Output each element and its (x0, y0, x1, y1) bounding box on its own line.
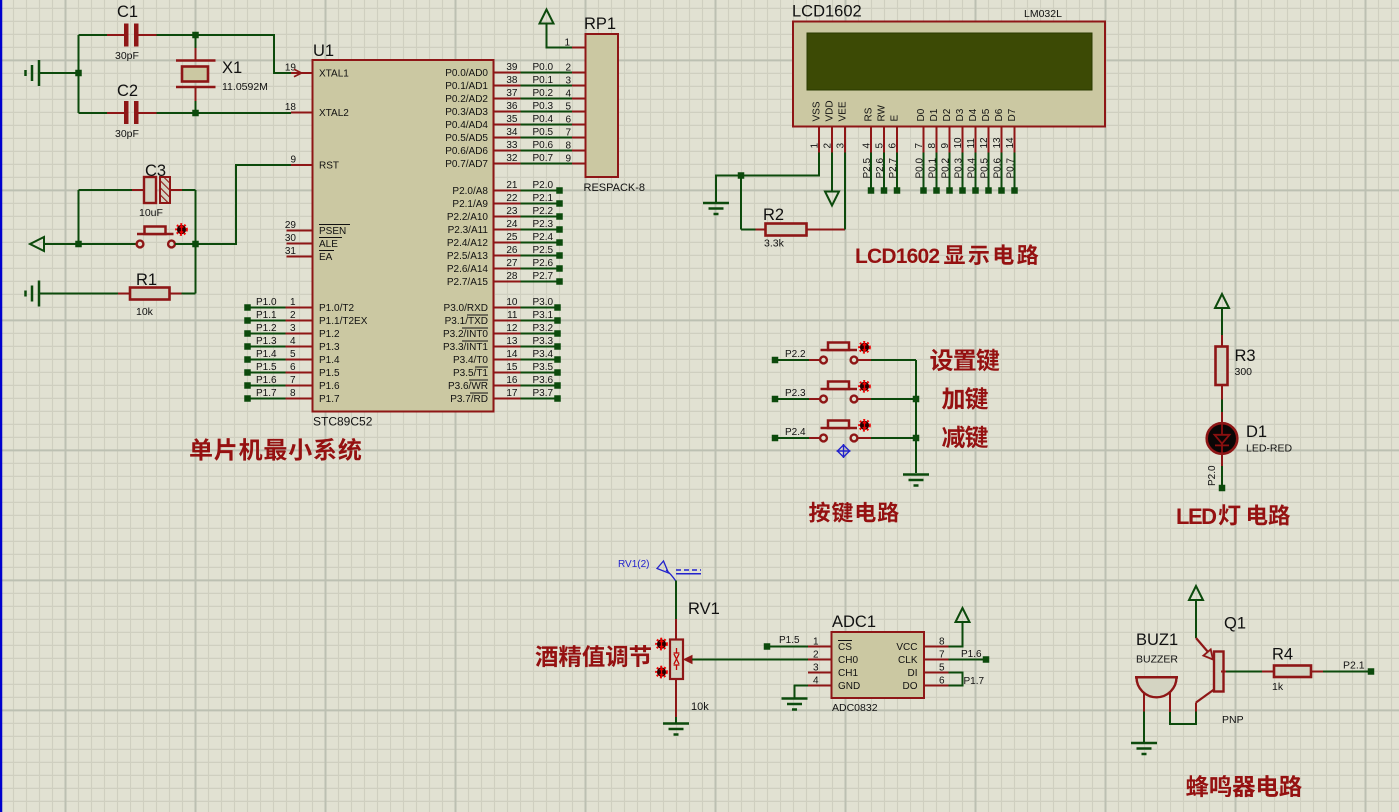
svg-text:12: 12 (979, 137, 990, 149)
svg-text:18: 18 (285, 102, 297, 113)
svg-text:P0.3: P0.3 (533, 101, 554, 112)
svg-text:PSEN: PSEN (319, 226, 346, 237)
svg-text:9: 9 (940, 143, 951, 149)
svg-text:C1: C1 (117, 3, 138, 21)
svg-text:P3.0: P3.0 (533, 297, 554, 308)
svg-text:13: 13 (506, 336, 518, 347)
svg-text:P0.5/AD5: P0.5/AD5 (445, 133, 488, 144)
svg-text:R1: R1 (136, 271, 157, 289)
svg-text:P2.5: P2.5 (533, 245, 554, 256)
svg-text:15: 15 (506, 362, 518, 373)
svg-text:P3.1/TXD: P3.1/TXD (445, 316, 488, 327)
svg-text:3.3k: 3.3k (764, 238, 785, 250)
svg-text:RST: RST (319, 161, 339, 172)
svg-text:29: 29 (285, 220, 297, 231)
svg-text:7: 7 (565, 128, 571, 139)
svg-text:32: 32 (506, 153, 518, 164)
svg-text:P1.5: P1.5 (779, 635, 800, 646)
svg-text:R3: R3 (1235, 347, 1256, 365)
svg-text:P3.4/T0: P3.4/T0 (453, 355, 488, 366)
svg-text:P1.3: P1.3 (256, 336, 277, 347)
svg-text:6: 6 (290, 362, 296, 373)
svg-text:P0.7/AD7: P0.7/AD7 (445, 159, 488, 170)
svg-text:GND: GND (838, 681, 860, 692)
svg-text:P0.7: P0.7 (1006, 157, 1017, 178)
svg-text:D7: D7 (1007, 108, 1018, 121)
svg-text:P3.7: P3.7 (533, 388, 554, 399)
svg-text:P2.0/A8: P2.0/A8 (452, 186, 488, 197)
svg-text:DO: DO (903, 681, 918, 692)
svg-text:35: 35 (506, 114, 518, 125)
svg-text:7: 7 (290, 375, 296, 386)
svg-text:2: 2 (290, 310, 296, 321)
svg-text:33: 33 (506, 140, 518, 151)
svg-text:LM032L: LM032L (1024, 8, 1062, 20)
svg-text:4: 4 (813, 676, 819, 687)
svg-text:D5: D5 (981, 108, 992, 121)
svg-text:P1.5: P1.5 (319, 368, 340, 379)
svg-text:9: 9 (290, 155, 296, 166)
svg-text:P2.1/A9: P2.1/A9 (452, 199, 488, 210)
svg-text:38: 38 (506, 75, 518, 86)
svg-text:P2.2: P2.2 (533, 206, 554, 217)
svg-text:EA: EA (319, 252, 333, 263)
svg-text:37: 37 (506, 88, 518, 99)
svg-text:6: 6 (939, 676, 945, 687)
svg-text:2: 2 (823, 143, 834, 149)
svg-text:2: 2 (813, 650, 819, 661)
svg-text:P0.0: P0.0 (533, 62, 554, 73)
svg-text:14: 14 (506, 349, 518, 360)
svg-text:8: 8 (939, 637, 945, 648)
svg-text:P2.0: P2.0 (533, 180, 554, 191)
svg-text:LCD1602: LCD1602 (792, 3, 862, 21)
svg-text:P0.6: P0.6 (993, 157, 1004, 178)
svg-text:U1: U1 (313, 42, 334, 60)
svg-text:D2: D2 (942, 108, 953, 121)
svg-text:P2.7: P2.7 (533, 271, 554, 282)
svg-text:4: 4 (565, 89, 571, 100)
svg-text:P3.6/WR: P3.6/WR (448, 381, 488, 392)
svg-text:23: 23 (506, 206, 518, 217)
svg-text:22: 22 (506, 193, 518, 204)
svg-text:P1.2: P1.2 (319, 329, 340, 340)
svg-text:E: E (890, 115, 901, 122)
svg-text:P1.1: P1.1 (256, 310, 277, 321)
svg-text:ADC1: ADC1 (832, 613, 876, 631)
svg-text:P0.1: P0.1 (533, 75, 554, 86)
svg-text:5: 5 (290, 349, 296, 360)
svg-text:P0.3: P0.3 (954, 157, 965, 178)
svg-text:RV1(2): RV1(2) (618, 559, 650, 570)
svg-text:PNP: PNP (1222, 714, 1244, 726)
svg-text:X1: X1 (222, 59, 242, 77)
svg-text:13: 13 (992, 137, 1003, 149)
svg-text:P0.4: P0.4 (533, 114, 554, 125)
svg-text:P3.0/RXD: P3.0/RXD (444, 303, 488, 314)
svg-text:6: 6 (888, 143, 899, 149)
svg-text:R2: R2 (763, 206, 784, 224)
svg-text:P2.2/A10: P2.2/A10 (447, 212, 489, 223)
svg-text:28: 28 (506, 271, 518, 282)
svg-text:VDD: VDD (825, 100, 836, 121)
svg-text:10: 10 (506, 297, 518, 308)
svg-text:7: 7 (939, 650, 945, 661)
svg-text:P1.0: P1.0 (256, 297, 277, 308)
svg-text:ADC0832: ADC0832 (832, 702, 878, 714)
svg-text:RS: RS (864, 107, 875, 121)
svg-text:XTAL1: XTAL1 (319, 69, 349, 80)
svg-text:5: 5 (939, 663, 945, 674)
svg-text:VCC: VCC (896, 642, 917, 653)
svg-text:21: 21 (506, 180, 518, 191)
svg-text:P2.3/A11: P2.3/A11 (448, 225, 489, 236)
svg-text:39: 39 (506, 62, 518, 73)
svg-text:P2.2: P2.2 (785, 349, 806, 360)
svg-text:P1.7: P1.7 (319, 394, 340, 405)
svg-text:11: 11 (507, 310, 518, 321)
svg-text:P1.4: P1.4 (319, 355, 340, 366)
svg-text:RESPACK-8: RESPACK-8 (584, 182, 646, 194)
svg-text:XTAL2: XTAL2 (319, 108, 349, 119)
svg-text:8: 8 (565, 141, 571, 152)
svg-text:2: 2 (565, 63, 571, 74)
svg-text:CLK: CLK (898, 655, 918, 666)
svg-text:3: 3 (290, 323, 296, 334)
svg-text:ALE: ALE (319, 239, 338, 250)
svg-text:P0.2: P0.2 (941, 157, 952, 178)
svg-text:4: 4 (290, 336, 296, 347)
svg-text:11: 11 (966, 138, 977, 149)
svg-text:10k: 10k (136, 306, 154, 318)
svg-text:P0.0/AD0: P0.0/AD0 (445, 68, 488, 79)
svg-text:30pF: 30pF (115, 128, 139, 140)
svg-text:D1: D1 (929, 108, 940, 121)
svg-text:300: 300 (1235, 366, 1253, 378)
svg-text:P2.0: P2.0 (1207, 465, 1218, 486)
svg-text:P2.4/A12: P2.4/A12 (447, 238, 489, 249)
svg-text:STC89C52: STC89C52 (313, 415, 373, 429)
svg-text:CS: CS (838, 642, 852, 653)
svg-text:P2.6/A14: P2.6/A14 (447, 264, 489, 275)
svg-text:25: 25 (506, 232, 518, 243)
svg-text:P2.7: P2.7 (888, 157, 899, 178)
svg-text:P0.0: P0.0 (915, 157, 926, 178)
svg-text:P2.3: P2.3 (533, 219, 554, 230)
svg-text:1k: 1k (1272, 681, 1284, 693)
svg-text:P2.6: P2.6 (533, 258, 554, 269)
svg-text:P2.3: P2.3 (785, 388, 806, 399)
svg-text:8: 8 (290, 388, 296, 399)
svg-text:5: 5 (565, 102, 571, 113)
svg-text:24: 24 (506, 219, 518, 230)
svg-text:VEE: VEE (838, 101, 849, 121)
svg-text:P2.4: P2.4 (785, 427, 806, 438)
svg-text:34: 34 (506, 127, 518, 138)
svg-text:P3.7/RD: P3.7/RD (450, 394, 488, 405)
svg-text:1: 1 (564, 38, 570, 49)
svg-text:C3: C3 (145, 162, 166, 180)
svg-text:P1.1/T2EX: P1.1/T2EX (319, 316, 368, 327)
svg-text:DI: DI (908, 668, 918, 679)
svg-text:P0.2: P0.2 (533, 88, 554, 99)
svg-text:P0.4: P0.4 (967, 157, 978, 178)
svg-text:P1.5: P1.5 (256, 362, 277, 373)
svg-text:P1.6: P1.6 (961, 649, 982, 660)
svg-text:30pF: 30pF (115, 50, 139, 62)
svg-text:P0.4/AD4: P0.4/AD4 (445, 120, 488, 131)
svg-text:RV1: RV1 (688, 600, 720, 618)
svg-text:31: 31 (285, 246, 297, 257)
svg-text:D4: D4 (968, 108, 979, 121)
svg-text:11.0592M: 11.0592M (222, 81, 268, 93)
svg-text:P3.3/INT1: P3.3/INT1 (443, 342, 488, 353)
svg-text:P2.7/A15: P2.7/A15 (447, 277, 489, 288)
svg-text:16: 16 (506, 375, 518, 386)
svg-text:D6: D6 (994, 108, 1005, 121)
svg-text:5: 5 (875, 143, 886, 149)
svg-text:P0.6: P0.6 (533, 140, 554, 151)
svg-text:BUZZER: BUZZER (1136, 654, 1178, 666)
svg-text:P0.1/AD1: P0.1/AD1 (445, 81, 488, 92)
svg-text:P3.2: P3.2 (533, 323, 554, 334)
svg-text:P1.2: P1.2 (256, 323, 277, 334)
svg-text:8: 8 (927, 143, 938, 149)
svg-text:P2.6: P2.6 (875, 157, 886, 178)
svg-text:P1.4: P1.4 (256, 349, 277, 360)
svg-text:P3.3: P3.3 (533, 336, 554, 347)
svg-text:P3.2/INT0: P3.2/INT0 (443, 329, 488, 340)
svg-text:P1.3: P1.3 (319, 342, 340, 353)
svg-text:D0: D0 (916, 108, 927, 121)
svg-text:P1.6: P1.6 (256, 375, 277, 386)
svg-text:P3.5: P3.5 (533, 362, 554, 373)
svg-text:P3.1: P3.1 (533, 310, 554, 321)
svg-text:P0.6/AD6: P0.6/AD6 (445, 146, 488, 157)
svg-text:P0.3/AD3: P0.3/AD3 (445, 107, 488, 118)
svg-text:P2.1: P2.1 (1343, 660, 1365, 672)
svg-text:17: 17 (506, 388, 518, 399)
svg-text:LED-RED: LED-RED (1246, 443, 1293, 455)
svg-text:P1.0/T2: P1.0/T2 (319, 303, 354, 314)
svg-text:C2: C2 (117, 82, 138, 100)
svg-text:10: 10 (953, 137, 964, 149)
svg-text:LCD1602: LCD1602 (855, 245, 940, 268)
svg-text:P0.1: P0.1 (928, 157, 939, 178)
svg-text:1: 1 (813, 637, 819, 648)
svg-text:P1.7: P1.7 (964, 676, 985, 687)
svg-text:9: 9 (565, 154, 571, 165)
svg-text:3: 3 (565, 76, 571, 87)
svg-text:P1.6: P1.6 (319, 381, 340, 392)
svg-text:BUZ1: BUZ1 (1136, 631, 1178, 649)
svg-text:P2.5/A13: P2.5/A13 (447, 251, 489, 262)
svg-text:P3.6: P3.6 (533, 375, 554, 386)
svg-text:D3: D3 (955, 108, 966, 121)
svg-text:10k: 10k (691, 701, 709, 713)
svg-text:P2.5: P2.5 (862, 157, 873, 178)
svg-text:4: 4 (862, 143, 873, 149)
svg-text:P2.4: P2.4 (533, 232, 554, 243)
svg-text:P3.5/T1: P3.5/T1 (453, 368, 488, 379)
svg-text:3: 3 (836, 143, 847, 149)
svg-text:LED: LED (1176, 504, 1217, 529)
svg-text:10uF: 10uF (139, 207, 163, 219)
svg-text:14: 14 (1005, 137, 1016, 149)
svg-text:P0.5: P0.5 (533, 127, 554, 138)
svg-text:27: 27 (506, 258, 518, 269)
svg-text:1: 1 (290, 297, 296, 308)
svg-text:RW: RW (877, 104, 888, 121)
svg-text:RP1: RP1 (584, 15, 616, 33)
svg-text:12: 12 (506, 323, 518, 334)
svg-text:P3.4: P3.4 (533, 349, 554, 360)
svg-text:VSS: VSS (812, 101, 823, 121)
svg-text:D1: D1 (1246, 423, 1267, 441)
svg-text:CH0: CH0 (838, 655, 858, 666)
svg-text:Q1: Q1 (1224, 615, 1246, 633)
svg-text:P0.7: P0.7 (533, 153, 554, 164)
svg-text:7: 7 (914, 143, 925, 149)
svg-text:3: 3 (813, 663, 819, 674)
svg-text:26: 26 (506, 245, 518, 256)
svg-text:R4: R4 (1272, 646, 1293, 664)
svg-text:CH1: CH1 (838, 668, 858, 679)
svg-text:P0.2/AD2: P0.2/AD2 (445, 94, 488, 105)
svg-text:P0.5: P0.5 (980, 157, 991, 178)
svg-text:P1.7: P1.7 (256, 388, 277, 399)
svg-text:P2.1: P2.1 (533, 193, 554, 204)
svg-text:36: 36 (506, 101, 518, 112)
svg-text:19: 19 (285, 63, 297, 74)
svg-text:6: 6 (565, 115, 571, 126)
svg-text:1: 1 (810, 143, 821, 149)
svg-text:30: 30 (285, 233, 297, 244)
